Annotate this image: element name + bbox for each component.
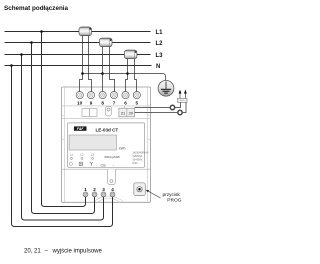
pulse output terminal box 21 20 — [119, 106, 135, 117]
svg-text:kWh: kWh — [119, 147, 126, 151]
terminal numbers bottom — [84, 187, 114, 192]
svg-text:IP20: IP20 — [133, 162, 139, 165]
node earth CT3 — [126, 72, 129, 75]
svg-text:F&F: F&F — [77, 127, 85, 131]
terminal 4 — [110, 192, 115, 197]
din window square right — [90, 109, 98, 117]
F&F logo — [74, 126, 87, 131]
face panel — [68, 123, 145, 167]
wire L2 to terminal 2 — [32, 43, 95, 214]
PROG button — [134, 183, 146, 196]
svg-text:L1: L1 — [156, 30, 164, 36]
meter body outline — [62, 87, 151, 202]
CT3 secondary lead k — [126, 57, 128, 92]
pulse receiver arrows — [179, 90, 187, 99]
svg-text:20: 20 — [129, 112, 133, 116]
terminal 7 — [110, 92, 117, 99]
pulse receiver box — [178, 98, 188, 102]
svg-text:8: 8 — [101, 101, 104, 106]
wire 21 to plug — [135, 107, 170, 109]
wire L2 — [5, 42, 151, 44]
din rail arc bottom — [93, 196, 124, 202]
svg-text:600imp/kWh: 600imp/kWh — [105, 155, 121, 159]
node N tap — [10, 64, 13, 67]
svg-text:21: 21 — [121, 112, 125, 116]
svg-text:CE: CE — [101, 162, 107, 167]
wire L3 to terminal 3 — [22, 55, 104, 221]
svg-text:7: 7 — [113, 101, 116, 106]
terminal 2 — [92, 192, 97, 197]
face bottom edge line — [62, 168, 151, 170]
wire N to terminal 4 — [12, 66, 113, 227]
wire plug21 stem — [175, 102, 180, 107]
CT1 secondary lead l — [89, 34, 92, 92]
CT2 secondary lead l — [110, 45, 115, 91]
node L1 tap — [40, 30, 43, 33]
current transformer CT3 — [124, 50, 136, 59]
svg-text:3: 3 — [102, 187, 105, 192]
current transformer CT2 — [100, 38, 113, 47]
node L2 tap — [30, 41, 33, 44]
bottom terminal 4 housing — [108, 169, 116, 184]
svg-text:9: 9 — [90, 101, 93, 106]
svg-text:1: 1 — [84, 187, 87, 192]
terminal 9 — [87, 92, 94, 99]
din window square left — [82, 109, 90, 117]
LCD display — [69, 135, 116, 150]
svg-text:4: 4 — [111, 187, 114, 192]
terminal 8 — [99, 92, 106, 99]
divider under terminal numbers — [62, 105, 151, 107]
spec text block — [133, 152, 149, 166]
bottom icon row — [69, 162, 115, 167]
wire 20 to plug — [135, 112, 178, 114]
plug terminal 20 — [178, 110, 182, 114]
wire plug20 stem — [183, 102, 186, 112]
phase indicators L1 L2 L3 — [70, 153, 94, 157]
current transformer CT1 — [79, 27, 92, 36]
svg-text:Schemat podłączenia: Schemat podłączenia — [4, 5, 69, 12]
svg-text:L3: L3 — [156, 53, 164, 59]
terminal 5 — [133, 92, 140, 99]
CT3 secondary lead l — [135, 57, 137, 92]
CT1 secondary lead k — [80, 34, 83, 92]
node earth CT2 — [101, 72, 104, 75]
seal housing — [106, 106, 112, 116]
terminal numbers top — [77, 101, 138, 106]
CT2 secondary lead k — [102, 45, 104, 91]
node earth CT1 — [81, 72, 84, 75]
PROG pointer arrowhead — [146, 190, 150, 193]
svg-text:PROG: PROG — [167, 197, 181, 203]
protective earth symbol — [158, 80, 174, 96]
svg-text:L2: L2 — [156, 41, 164, 47]
wire L1 to terminal 1 — [42, 32, 86, 207]
svg-text:przycisk: przycisk — [163, 192, 181, 198]
divider above face — [62, 117, 151, 119]
PROG pointer line — [148, 191, 161, 198]
terminal 6 — [122, 92, 129, 99]
node L3 tap — [20, 53, 23, 56]
svg-text:LE-03d CT: LE-03d CT — [96, 127, 119, 132]
svg-text:20, 21–wyjście impulsowe: 20, 21–wyjście impulsowe — [24, 249, 103, 255]
svg-text:10: 10 — [77, 101, 83, 106]
plug terminal 21 — [170, 105, 174, 109]
meter inner side lines — [64, 87, 147, 202]
svg-text:6: 6 — [124, 101, 127, 106]
earth bus wire — [83, 74, 166, 81]
svg-text:2: 2 — [93, 187, 96, 192]
terminal 1 — [83, 192, 88, 197]
terminal 10 — [76, 92, 83, 99]
wire L3 — [5, 54, 151, 56]
svg-text:5: 5 — [136, 101, 139, 106]
wire L1 — [5, 31, 151, 33]
wire N — [5, 65, 152, 67]
svg-text:N: N — [156, 64, 160, 70]
terminal 3 — [101, 192, 106, 197]
